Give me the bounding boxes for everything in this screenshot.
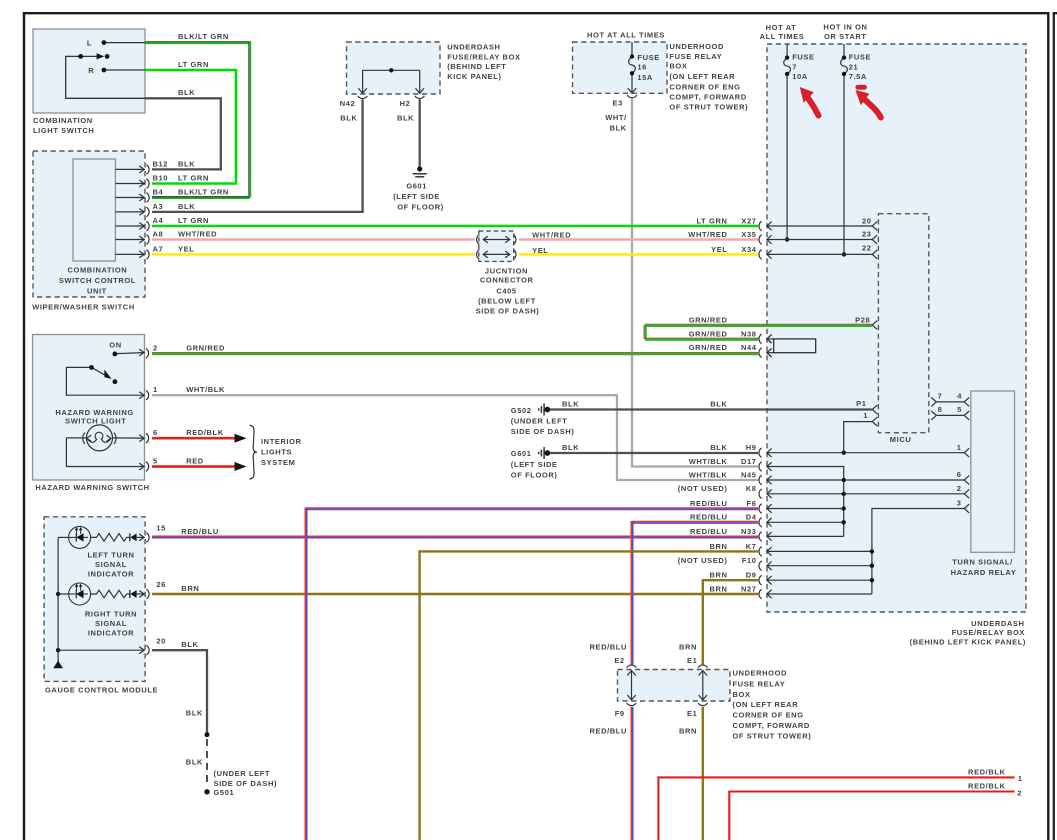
- connector H2: [415, 96, 425, 99]
- combination switch control unit pins: [115, 168, 143, 170]
- svg-text:F9: F9: [615, 709, 625, 718]
- hazard switch light (lamp): [87, 425, 113, 451]
- svg-text:P28: P28: [855, 315, 870, 324]
- svg-text:BLK: BLK: [178, 88, 195, 97]
- svg-text:6: 6: [153, 428, 158, 437]
- svg-text:RED/BLK: RED/BLK: [968, 782, 1006, 791]
- X35 interior wire to MICU 23: [767, 239, 872, 241]
- svg-text:OF FLOOR): OF FLOOR): [511, 471, 558, 480]
- connector N33: [759, 532, 762, 542]
- svg-text:LT GRN: LT GRN: [697, 216, 728, 225]
- svg-text:G501: G501: [214, 788, 235, 797]
- hazard switch pin connectors: [146, 349, 149, 359]
- svg-text:E1: E1: [687, 656, 697, 665]
- svg-text:20: 20: [862, 216, 872, 225]
- svg-text:UNIT: UNIT: [87, 287, 107, 296]
- svg-text:YEL: YEL: [532, 246, 548, 255]
- connector D4: [759, 518, 762, 528]
- wire BRN (D9 to E1): [703, 580, 758, 665]
- svg-text:WHT/BLK: WHT/BLK: [689, 457, 728, 466]
- svg-text:FUSE: FUSE: [792, 53, 814, 62]
- svg-text:HOT AT ALL TIMES: HOT AT ALL TIMES: [587, 31, 665, 40]
- wire RED (hazard 5 to interior lights): [152, 465, 235, 468]
- annotation red arrow 1: [808, 98, 819, 116]
- svg-text:BLK: BLK: [710, 400, 727, 409]
- MICU 8 to relay 5 wire: [936, 414, 964, 416]
- left turn signal indicator LED: [69, 526, 91, 548]
- svg-text:5: 5: [153, 457, 158, 466]
- svg-text:(NOT USED): (NOT USED): [678, 484, 728, 493]
- svg-text:BRN: BRN: [181, 584, 199, 593]
- turn signal/hazard relay box: [971, 391, 1015, 552]
- svg-text:7: 7: [792, 63, 797, 72]
- svg-text:KICK PANEL): KICK PANEL): [447, 72, 501, 81]
- connector H9: [759, 448, 762, 458]
- svg-text:BOX: BOX: [669, 62, 687, 71]
- underdash box internal bus: [363, 69, 420, 71]
- svg-text:21: 21: [849, 63, 859, 72]
- gauge pin connectors: [146, 533, 149, 543]
- svg-text:20: 20: [156, 636, 166, 645]
- svg-text:SIDE OF DASH): SIDE OF DASH): [214, 779, 278, 788]
- wire BLK (G601 to H9): [550, 452, 758, 454]
- svg-text:RED/BLU: RED/BLU: [589, 727, 627, 736]
- junction connector C405 box: [479, 231, 514, 261]
- svg-text:RED: RED: [186, 457, 204, 466]
- svg-text:N45: N45: [741, 470, 757, 479]
- wire GRN/RED (MICU P28 to N38): [645, 323, 872, 325]
- svg-text:SWITCH LIGHT: SWITCH LIGHT: [65, 417, 126, 426]
- svg-text:INTERIOR: INTERIOR: [261, 437, 302, 446]
- hazard warning switch box: [33, 335, 145, 481]
- svg-text:CORNER OF ENG: CORNER OF ENG: [669, 82, 740, 91]
- wire WHT/BLK (hazard 1 to N45): [152, 395, 758, 480]
- svg-text:INDICATOR: INDICATOR: [88, 629, 134, 638]
- H9 interior wire to relay 1: [767, 452, 964, 454]
- svg-text:10A: 10A: [792, 72, 808, 81]
- underhood fuse relay box (E2 E1): [618, 670, 731, 702]
- svg-text:1: 1: [153, 385, 158, 394]
- D9 interior wire: [767, 579, 872, 581]
- svg-text:RED/BLU: RED/BLU: [690, 527, 728, 536]
- right turn signal indicator LED: [69, 583, 91, 605]
- svg-text:LIGHTS: LIGHTS: [261, 448, 292, 457]
- svg-text:BLK: BLK: [562, 400, 579, 409]
- svg-text:COMPT, FORWARD: COMPT, FORWARD: [669, 93, 746, 102]
- svg-text:R: R: [88, 66, 94, 75]
- svg-text:SIDE OF DASH): SIDE OF DASH): [511, 427, 575, 436]
- F6 interior wire: [767, 508, 844, 510]
- svg-text:FUSE: FUSE: [637, 53, 659, 62]
- svg-text:N42: N42: [340, 99, 356, 108]
- wire RED/BLU (D4 to E2): [632, 521, 758, 523]
- svg-text:(BEHIND LEFT: (BEHIND LEFT: [447, 62, 506, 71]
- svg-text:LT GRN: LT GRN: [178, 174, 209, 183]
- wire BRN (E1 down): [702, 707, 704, 840]
- svg-text:RED/BLU: RED/BLU: [589, 643, 627, 652]
- N45 interior wire to relay 6: [767, 479, 964, 481]
- svg-text:CORNER OF ENG: CORNER OF ENG: [733, 711, 804, 720]
- svg-text:A8: A8: [153, 230, 164, 239]
- relay 3 wire to K7/F10/D9/N27: [872, 509, 964, 595]
- MICU pin 1 wire: [844, 422, 872, 452]
- svg-text:BRN: BRN: [709, 584, 727, 593]
- svg-text:COMPT, FORWARD: COMPT, FORWARD: [733, 721, 810, 730]
- fuse 21 7.5A: [843, 44, 845, 58]
- svg-text:(LEFT SIDE: (LEFT SIDE: [393, 192, 440, 201]
- gauge control module dashed box: [44, 517, 145, 682]
- svg-text:LT GRN: LT GRN: [178, 216, 209, 225]
- connector D9: [759, 575, 762, 585]
- svg-text:A7: A7: [153, 244, 164, 253]
- annotation red arrow 2: [864, 99, 881, 118]
- MICU dashed box: [878, 214, 928, 433]
- svg-text:WHT/RED: WHT/RED: [178, 230, 217, 239]
- svg-text:WHT/RED: WHT/RED: [688, 230, 727, 239]
- svg-text:SIDE OF DASH): SIDE OF DASH): [476, 306, 540, 315]
- ground G601 (top): [417, 166, 422, 171]
- svg-text:GRN/RED: GRN/RED: [689, 315, 728, 324]
- connector D17: [759, 462, 762, 472]
- X27 interior wire to MICU 20: [767, 225, 872, 227]
- wire BLK/LT GRN (light switch L to B4): [145, 41, 250, 43]
- wire BRN (26 to N27): [152, 593, 758, 595]
- svg-text:K7: K7: [746, 542, 757, 551]
- svg-text:BLK: BLK: [178, 202, 195, 211]
- svg-text:UNDERDASH: UNDERDASH: [971, 619, 1024, 628]
- svg-text:(ON LEFT REAR: (ON LEFT REAR: [669, 72, 735, 81]
- wire RED/BLU (F6 down): [306, 507, 758, 509]
- svg-text:N44: N44: [741, 343, 757, 352]
- svg-text:BLK: BLK: [610, 124, 627, 133]
- svg-text:5: 5: [957, 405, 962, 414]
- ground G501: [204, 789, 209, 794]
- svg-text:HAZARD RELAY: HAZARD RELAY: [951, 568, 1017, 577]
- fuse 16 15A: [631, 42, 633, 57]
- svg-text:MICU: MICU: [890, 435, 912, 444]
- svg-text:N33: N33: [741, 527, 757, 536]
- svg-text:BLK: BLK: [186, 758, 203, 767]
- connector N42: [358, 96, 368, 99]
- svg-text:GAUGE CONTROL MODULE: GAUGE CONTROL MODULE: [45, 686, 158, 695]
- svg-text:BOX: BOX: [733, 690, 751, 699]
- svg-text:SWITCH CONTROL: SWITCH CONTROL: [59, 276, 136, 285]
- svg-text:15A: 15A: [637, 73, 653, 82]
- svg-text:HAZARD WARNING SWITCH: HAZARD WARNING SWITCH: [35, 483, 149, 492]
- svg-text:A3: A3: [153, 202, 164, 211]
- svg-text:LEFT TURN: LEFT TURN: [87, 551, 134, 560]
- svg-text:RED/BLU: RED/BLU: [181, 527, 219, 536]
- svg-text:B10: B10: [153, 174, 169, 183]
- svg-text:2: 2: [153, 343, 158, 352]
- svg-text:OF STRUT TOWER): OF STRUT TOWER): [669, 103, 748, 112]
- svg-text:FUSE RELAY: FUSE RELAY: [733, 680, 786, 689]
- svg-text:WHT/BLK: WHT/BLK: [689, 470, 728, 479]
- combination light switch box: [33, 29, 145, 113]
- wire GRN/RED (hazard 2 to N44): [152, 352, 758, 354]
- svg-text:E3: E3: [613, 98, 623, 107]
- combination light switch contacts: [104, 42, 145, 44]
- svg-text:X34: X34: [741, 245, 756, 254]
- svg-text:RED/BLK: RED/BLK: [186, 428, 224, 437]
- svg-text:H2: H2: [400, 99, 411, 108]
- svg-text:(UNDER LEFT: (UNDER LEFT: [511, 417, 568, 426]
- svg-text:HOT AT: HOT AT: [766, 23, 797, 32]
- svg-text:1: 1: [863, 411, 868, 420]
- MICU 7 to relay 4 wire: [936, 401, 964, 403]
- connector F6: [759, 504, 762, 514]
- svg-text:YEL: YEL: [178, 244, 194, 253]
- K7 interior wire: [767, 550, 872, 552]
- svg-text:UNDERHOOD: UNDERHOOD: [669, 42, 724, 51]
- N38/N44 jumper plate: [767, 338, 774, 340]
- svg-text:3: 3: [957, 499, 962, 508]
- wire RED/BLK (hazard 6 to interior lights): [152, 437, 235, 440]
- underdash fuse/relay box (right, large): [767, 44, 1026, 612]
- svg-text:(NOT USED): (NOT USED): [678, 556, 728, 565]
- svg-text:1: 1: [957, 443, 962, 452]
- connector F10: [759, 561, 762, 571]
- svg-text:F10: F10: [742, 556, 757, 565]
- svg-text:SYSTEM: SYSTEM: [261, 458, 295, 467]
- wire RED/BLK 2: [729, 792, 1014, 840]
- gauge module internal bus: [57, 537, 59, 661]
- svg-text:BLK/LT GRN: BLK/LT GRN: [178, 32, 229, 41]
- wire BLK (A3 to N42): [152, 99, 363, 212]
- svg-text:L: L: [87, 38, 92, 47]
- underdash fuse/relay box (N42 H2): [347, 42, 441, 94]
- svg-text:COMBINATION: COMBINATION: [33, 116, 93, 125]
- svg-text:BRN: BRN: [679, 643, 697, 652]
- N27 interior wire: [767, 593, 872, 595]
- svg-text:(ON LEFT REAR: (ON LEFT REAR: [733, 700, 799, 709]
- underhood fuse relay box (E3): [573, 42, 668, 93]
- svg-text:BLK: BLK: [186, 708, 203, 717]
- wire BLK (20 to G501): [152, 650, 207, 734]
- underhood box 2 internal arrows: [631, 671, 633, 699]
- svg-text:C405: C405: [496, 287, 516, 296]
- svg-text:RED/BLU: RED/BLU: [690, 513, 728, 522]
- svg-text:2: 2: [957, 484, 962, 493]
- gauge pin 20 wire: [58, 649, 144, 651]
- wire LT GRN (light switch R to B10): [145, 70, 236, 184]
- svg-text:7.5A: 7.5A: [849, 72, 867, 81]
- svg-text:D9: D9: [746, 571, 757, 580]
- svg-text:BRN: BRN: [709, 542, 727, 551]
- svg-text:COMBINATION: COMBINATION: [68, 265, 128, 274]
- svg-text:YEL: YEL: [711, 245, 727, 254]
- svg-text:BLK: BLK: [710, 443, 727, 452]
- connector P1 (MICU): [872, 405, 877, 414]
- connector K7: [759, 547, 762, 557]
- svg-text:16: 16: [637, 63, 647, 72]
- svg-text:G601: G601: [406, 182, 427, 191]
- svg-text:BLK: BLK: [181, 640, 198, 649]
- svg-text:RED/BLK: RED/BLK: [968, 767, 1006, 776]
- D4 interior wire: [767, 521, 844, 523]
- svg-text:SIGNAL: SIGNAL: [95, 560, 127, 569]
- svg-text:1: 1: [1018, 774, 1023, 783]
- wire RED/BLK 1: [658, 777, 1014, 840]
- interior lights system brace: [250, 425, 257, 479]
- connector N27: [759, 589, 762, 599]
- svg-text:22: 22: [862, 244, 872, 253]
- ground G502: [538, 408, 540, 410]
- svg-text:P1: P1: [856, 399, 866, 408]
- svg-text:BLK: BLK: [397, 113, 414, 122]
- svg-text:E1: E1: [687, 709, 697, 718]
- svg-text:WHT/BLK: WHT/BLK: [186, 385, 225, 394]
- junction connector C405: [477, 235, 480, 245]
- D17 interior wire + bus down: [767, 467, 844, 537]
- wire RED/BLU (F9 down): [630, 707, 632, 840]
- svg-text:X35: X35: [741, 230, 756, 239]
- svg-text:26: 26: [156, 580, 166, 589]
- wire BRN (K7 down): [420, 550, 759, 552]
- hazard switch contact arm: [66, 367, 143, 395]
- svg-text:E2: E2: [614, 656, 624, 665]
- K8 interior wire to relay 2: [767, 493, 964, 495]
- svg-text:A4: A4: [153, 216, 164, 225]
- svg-text:HOT IN ON: HOT IN ON: [823, 23, 867, 32]
- svg-text:LT GRN: LT GRN: [178, 60, 209, 69]
- svg-text:OF STRUT TOWER): OF STRUT TOWER): [733, 732, 812, 741]
- svg-text:B12: B12: [153, 159, 169, 168]
- fuse 7 10A: [786, 44, 788, 58]
- svg-text:GRN/RED: GRN/RED: [689, 329, 728, 338]
- page frame: [23, 12, 25, 840]
- wire BLK (G502 to P1): [550, 408, 872, 410]
- svg-text:23: 23: [862, 230, 872, 239]
- svg-text:WHT/RED: WHT/RED: [532, 231, 571, 240]
- svg-text:BRN: BRN: [679, 727, 697, 736]
- svg-text:15: 15: [156, 524, 166, 533]
- svg-text:ON: ON: [109, 341, 121, 350]
- svg-text:SIGNAL: SIGNAL: [95, 619, 127, 628]
- svg-text:WHT/: WHT/: [605, 113, 627, 122]
- svg-text:OR START: OR START: [824, 32, 867, 41]
- svg-text:4: 4: [957, 392, 962, 401]
- svg-text:WIPER/WASHER SWITCH: WIPER/WASHER SWITCH: [32, 303, 135, 312]
- svg-text:JUCNTION: JUCNTION: [485, 266, 528, 275]
- svg-text:INDICATOR: INDICATOR: [88, 570, 134, 579]
- svg-text:(UNDER LEFT: (UNDER LEFT: [214, 769, 271, 778]
- wire RED/BLU (15 to N33): [152, 535, 758, 537]
- svg-text:D4: D4: [746, 513, 757, 522]
- svg-text:BLK: BLK: [562, 443, 579, 452]
- svg-text:N27: N27: [741, 584, 757, 593]
- ground G601 (floor): [538, 452, 540, 454]
- wire YEL (A7 to X34): [152, 253, 475, 256]
- connector X34: [759, 250, 762, 260]
- svg-text:(BEHIND LEFT KICK PANEL): (BEHIND LEFT KICK PANEL): [910, 638, 1026, 647]
- X34 interior wire to MICU 22: [767, 253, 872, 255]
- F10 interior wire: [767, 565, 872, 567]
- connector K8: [759, 489, 762, 499]
- svg-text:FUSE/RELAY BOX: FUSE/RELAY BOX: [952, 628, 1025, 637]
- wire BLK (light switch to B12): [145, 98, 221, 169]
- combination switch control unit dashed box: [33, 151, 145, 297]
- wire LT GRN (A4 to X27): [152, 225, 758, 228]
- svg-text:GRN/RED: GRN/RED: [689, 343, 728, 352]
- svg-text:FUSE RELAY: FUSE RELAY: [669, 52, 722, 61]
- svg-text:7: 7: [938, 392, 943, 401]
- svg-text:UNDERDASH: UNDERDASH: [447, 42, 500, 51]
- svg-text:G601: G601: [511, 449, 532, 458]
- svg-text:GRN/RED: GRN/RED: [186, 343, 225, 352]
- svg-text:D17: D17: [741, 457, 757, 466]
- svg-text:BLK: BLK: [178, 159, 195, 168]
- svg-text:(LEFT SIDE: (LEFT SIDE: [511, 460, 558, 469]
- svg-text:X27: X27: [741, 216, 756, 225]
- connector N45: [759, 475, 762, 485]
- svg-text:BRN: BRN: [709, 571, 727, 580]
- svg-text:RED/BLU: RED/BLU: [690, 499, 728, 508]
- connector N38: [759, 334, 762, 344]
- svg-text:F6: F6: [747, 499, 757, 508]
- svg-text:H9: H9: [746, 443, 757, 452]
- connector X27: [759, 221, 762, 231]
- svg-text:BLK/LT GRN: BLK/LT GRN: [178, 188, 229, 197]
- svg-text:UNDERHOOD: UNDERHOOD: [733, 669, 788, 678]
- svg-text:FUSE/RELAY BOX: FUSE/RELAY BOX: [447, 52, 520, 61]
- wire WHT/RED (A8 to X35): [152, 238, 475, 241]
- svg-text:LIGHT SWITCH: LIGHT SWITCH: [33, 126, 94, 135]
- svg-text:ALL TIMES: ALL TIMES: [760, 32, 805, 41]
- svg-text:FUSE: FUSE: [849, 53, 871, 62]
- svg-text:(BELOW LEFT: (BELOW LEFT: [478, 297, 536, 306]
- connector E3: [627, 95, 637, 98]
- svg-text:2: 2: [1017, 788, 1022, 797]
- svg-text:BLK: BLK: [340, 113, 357, 122]
- wire WHT/BLK (E3 to D17): [632, 99, 758, 467]
- svg-text:K8: K8: [746, 484, 757, 493]
- svg-text:B4: B4: [153, 188, 164, 197]
- svg-text:8: 8: [938, 405, 943, 414]
- svg-text:OF FLOOR): OF FLOOR): [397, 203, 444, 212]
- svg-text:6: 6: [957, 470, 962, 479]
- svg-text:CONNECTOR: CONNECTOR: [480, 276, 534, 285]
- svg-text:N38: N38: [741, 329, 757, 338]
- svg-text:TURN SIGNAL/: TURN SIGNAL/: [952, 557, 1013, 566]
- connector N44: [759, 348, 762, 358]
- svg-text:RIGHT TURN: RIGHT TURN: [85, 609, 137, 618]
- wire BLK (H2 to G601): [419, 99, 421, 166]
- svg-text:G502: G502: [511, 406, 532, 415]
- underhood box 2 connectors: [627, 665, 637, 668]
- N33 interior wire: [767, 535, 844, 537]
- connector X35: [759, 235, 762, 245]
